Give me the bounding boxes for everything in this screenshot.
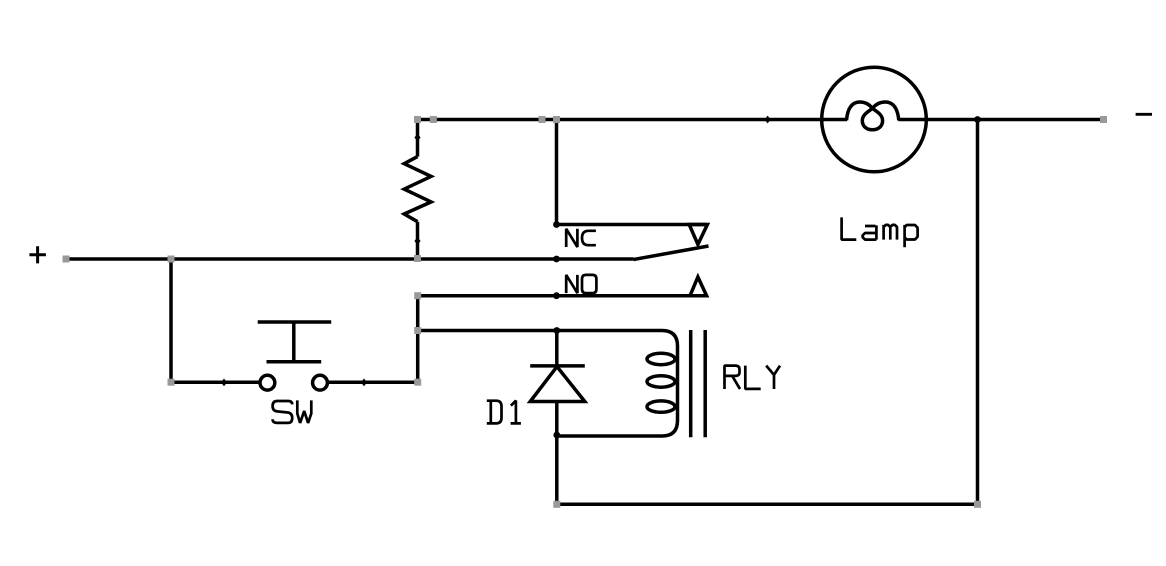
wire: NC drop from top rail [555, 120, 559, 225]
wire: switch left lead [171, 380, 260, 384]
flow arrow on switch left lead [221, 379, 227, 387]
grip marker: plus rail / resistor junction [414, 255, 421, 262]
grip marker: bottom right corner [974, 501, 981, 508]
NO fixed contact triangle [690, 277, 707, 296]
relay pole (common) angled line [634, 246, 709, 260]
wire: top rail left segment [418, 118, 848, 122]
relay coil RLY [557, 331, 678, 437]
grip marker: top rail x=433 [430, 116, 437, 123]
grip marker: NO corner [414, 292, 421, 299]
label - (minus terminal) [1136, 113, 1152, 116]
wire: relay coil top lead [418, 329, 557, 333]
label NC [566, 229, 596, 247]
wire: right drop NO-to-switch [416, 296, 420, 383]
grip marker: switch right corner [414, 379, 421, 386]
flow arrow on top rail near lamp [765, 116, 771, 124]
grip marker: plus rail left end [63, 256, 70, 263]
junction dot: lamp right riser [974, 116, 981, 123]
junction dot: diode top [553, 327, 560, 334]
grip marker: top rail right end [1100, 116, 1107, 123]
grip marker: bottom drop corner [553, 501, 560, 508]
wire: NC contact line [557, 223, 708, 227]
label SW [273, 400, 312, 423]
wire: plus rail [66, 257, 634, 261]
lamp LAMP [822, 67, 927, 172]
wire: top rail right segment [898, 118, 1103, 122]
wire: right riser to top rail [976, 120, 980, 505]
relay core bar 1 [689, 330, 693, 437]
flow arrow on resistor top lead [414, 134, 420, 142]
label NO [566, 275, 596, 293]
grip marker: switch left corner [168, 379, 175, 386]
diode D1 [530, 331, 585, 437]
wire: NO contact line [418, 294, 708, 298]
junction dot: diode bottom [553, 432, 560, 439]
wire: switch right lead [328, 380, 418, 384]
wire: left drop to switch [169, 259, 173, 382]
label D1 [487, 401, 521, 424]
grip marker: top rail x=542 [539, 116, 546, 123]
junction dot: NO wire at x=556 [553, 292, 560, 299]
grip marker: top rail / NC drop junction [553, 116, 560, 123]
label Lamp [842, 217, 918, 247]
pushbutton switch SW [258, 322, 332, 390]
NC fixed contact triangle [689, 225, 707, 245]
wire: bottom return [557, 503, 978, 507]
grip marker: top rail left corner [414, 116, 421, 123]
label + (plus terminal) [29, 246, 46, 263]
resistor R [404, 120, 431, 260]
label RLY [725, 366, 781, 389]
grip marker: relay top T junction [414, 327, 421, 334]
grip marker: plus rail / left drop junction [168, 256, 175, 263]
wire: bottom drop from diode [555, 436, 559, 504]
junction dot: plus rail at x=556 [553, 256, 560, 263]
junction dot: NC corner [553, 221, 560, 228]
relay core bar 2 [703, 330, 707, 437]
flow arrow on resistor bottom lead [414, 237, 420, 245]
flow arrow on switch right lead [361, 379, 367, 387]
